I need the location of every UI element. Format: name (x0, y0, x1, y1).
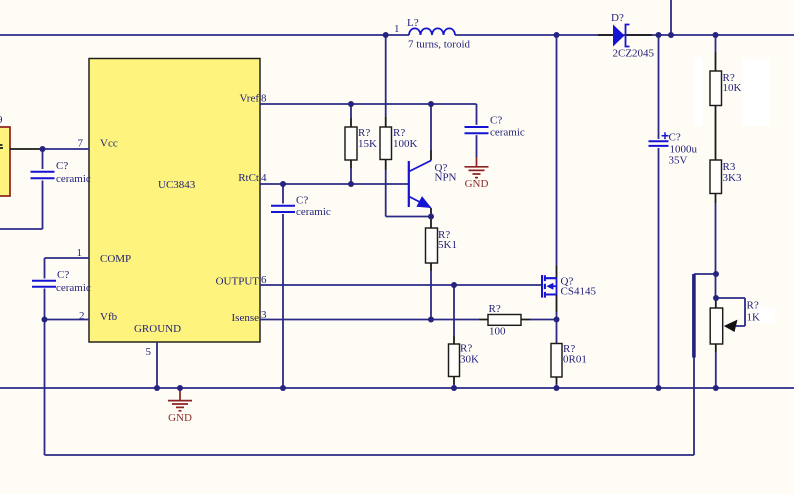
IC pin number 4 (261, 172, 267, 184)
IC pin number 2 (79, 310, 85, 322)
svg-text:UC3843: UC3843 (158, 179, 196, 191)
wire Vref pin 8 (260, 103, 477, 105)
junction node (gnd 0R01) (554, 385, 560, 391)
svg-text:R?: R? (747, 300, 759, 312)
junction node (Vref-collector) (428, 101, 434, 107)
wire RtCt pin 4 (260, 183, 408, 185)
svg-text:C?: C? (490, 115, 502, 127)
capacitor C4 ceramic (RtCt) (271, 195, 331, 389)
wire inductor node drop (385, 35, 387, 117)
svg-text:Isense: Isense (232, 312, 260, 324)
ground symbol (Vref cap) (465, 157, 489, 190)
junction node (drain rail) (554, 32, 560, 38)
capacitor C3 ceramic (Vref) (465, 115, 525, 158)
svg-text:ceramic: ceramic (296, 206, 331, 218)
wire IC pin 5 to ground bus (156, 342, 158, 388)
svg-text:L?: L? (407, 17, 419, 29)
resistor R7 10K (710, 35, 742, 118)
svg-text:GND: GND (465, 178, 489, 190)
svg-text:1K: 1K (747, 312, 761, 324)
svg-text:0R01: 0R01 (563, 354, 587, 366)
wire OUTPUT to 30K (453, 285, 455, 336)
svg-text:3K3: 3K3 (723, 172, 742, 184)
junction node (RtCt-R15K) (348, 181, 354, 187)
junction node (gnd ct) (280, 385, 286, 391)
resistor R3 5K1 (426, 217, 457, 320)
svg-text:2CZ2045: 2CZ2045 (613, 48, 655, 60)
diode D1 2CZ2045 (598, 12, 655, 60)
wire Isense pin 3 (260, 319, 479, 321)
junction node (gnd 30K) (451, 385, 457, 391)
wire top rail left (0, 34, 409, 36)
svg-text:ceramic: ceramic (56, 173, 91, 185)
wire feedback down-left (44, 320, 46, 456)
wire highlighted thick segment (692, 274, 696, 358)
wire feedback riser (694, 274, 716, 455)
wire to off-sheet top (670, 0, 672, 35)
junction node (gnd pot) (713, 385, 719, 391)
IC pin number 1 (77, 247, 83, 259)
junction node (source-sense) (554, 317, 560, 323)
wire Vcc pin 7 (41, 148, 89, 150)
svg-text:ceramic: ceramic (490, 127, 525, 139)
svg-text:7: 7 (78, 138, 84, 150)
junction node (Vcc cap) (40, 146, 46, 152)
junction node (output-30K) (451, 282, 457, 288)
svg-text:100K: 100K (393, 138, 418, 150)
svg-text:1: 1 (394, 23, 400, 35)
svg-text:D?: D? (611, 12, 624, 24)
svg-text:Vcc: Vcc (100, 138, 118, 150)
svg-text:5K1: 5K1 (438, 239, 457, 251)
wire 100K to emitter node (386, 170, 431, 217)
transistor Q2 CS4145 MOSFET (542, 35, 596, 312)
ground symbol GND (main) (168, 389, 192, 424)
svg-text:4: 4 (261, 172, 267, 184)
resistor R2 100K (380, 117, 418, 170)
IC pin number 6 (261, 274, 267, 286)
capacitor C5 1000u 35V (649, 132, 698, 389)
junction node (divider top) (713, 32, 719, 38)
resistor R3 3K3 (710, 118, 742, 300)
wire Vref to cap (476, 104, 478, 125)
svg-text:COMP: COMP (100, 253, 131, 265)
svg-text:C?: C? (56, 160, 68, 172)
wire OUTPUT pin 6 to gate (260, 284, 541, 286)
svg-text:C?: C? (296, 195, 308, 207)
svg-text:30K: 30K (460, 354, 479, 366)
IC pin number 7 (78, 138, 84, 150)
junction node (top riser) (668, 32, 674, 38)
svg-text:CS4145: CS4145 (561, 286, 597, 298)
junction node (RtCt cap) (280, 181, 286, 187)
resistor R6 0R01 (551, 343, 587, 388)
svg-text:8: 8 (261, 93, 267, 105)
resistor R4 30K (449, 336, 480, 388)
wire electrolytic drop (658, 35, 660, 139)
svg-text:C?: C? (57, 269, 69, 281)
svg-text:Vfb: Vfb (100, 311, 118, 323)
wire top rail right (455, 34, 794, 36)
svg-text:NPN: NPN (435, 172, 457, 184)
inductor L1 7 turns toroid (407, 17, 471, 51)
transistor Q1 NPN (409, 104, 457, 217)
svg-text:GND: GND (168, 412, 192, 424)
svg-text:35V: 35V (669, 155, 688, 167)
wire ground bus (0, 387, 794, 389)
svg-text:C?: C? (669, 132, 681, 144)
IC pin number 8 (261, 93, 267, 105)
svg-text:10K: 10K (723, 82, 742, 94)
junction node (divider mid) (713, 271, 719, 277)
svg-text:7 turns, toroid: 7 turns, toroid (408, 39, 471, 51)
svg-text:ceramic: ceramic (56, 282, 91, 294)
inductor pin 1 (394, 23, 400, 35)
svg-text:5: 5 (146, 346, 152, 358)
wire Vcc cap to left edge (0, 228, 43, 230)
wire feedback bottom run (45, 454, 695, 456)
wire RtCt cap drop (282, 184, 284, 204)
resistor R5 100 (479, 303, 557, 338)
svg-text:OUTPUT: OUTPUT (216, 276, 260, 288)
svg-text:RtCt: RtCt (238, 172, 259, 184)
svg-text:15K: 15K (358, 138, 377, 150)
junction node (gnd symbol) (177, 385, 183, 391)
wire Vfb pin 2 (45, 319, 90, 321)
junction node (Isense-5K1) (428, 317, 434, 323)
junction node (Vref-R15K) (348, 101, 354, 107)
svg-text:R?: R? (489, 303, 501, 315)
IC pin number 5 (146, 346, 152, 358)
connector (partial, left edge) (0, 114, 10, 196)
junction node (inductor tap) (383, 32, 389, 38)
resistor R1 15K (345, 104, 377, 184)
capacitor C2 ceramic (COMP-Vfb) (32, 269, 91, 320)
svg-text:100: 100 (489, 326, 506, 338)
capacitor C1 ceramic (Vcc bypass) (31, 149, 91, 229)
junction node (gnd cap) (656, 385, 662, 391)
svg-text:Vref: Vref (240, 93, 260, 105)
svg-text:GROUND: GROUND (134, 323, 181, 335)
junction node (pot wiper) (713, 295, 719, 301)
junction node (emitter) (428, 214, 434, 220)
potentiometer R8 1K (710, 298, 760, 388)
wire source to sense node (556, 312, 558, 343)
junction node (gnd pin5) (154, 385, 160, 391)
junction node (cap rail) (656, 32, 662, 38)
wire pin to Vcc (pin stub) (10, 148, 41, 150)
junction node (Vfb) (42, 317, 48, 323)
IC pin number 3 (261, 309, 267, 321)
wire COMP pin 1 (45, 258, 90, 279)
IC U1 UC3843 (89, 59, 260, 343)
